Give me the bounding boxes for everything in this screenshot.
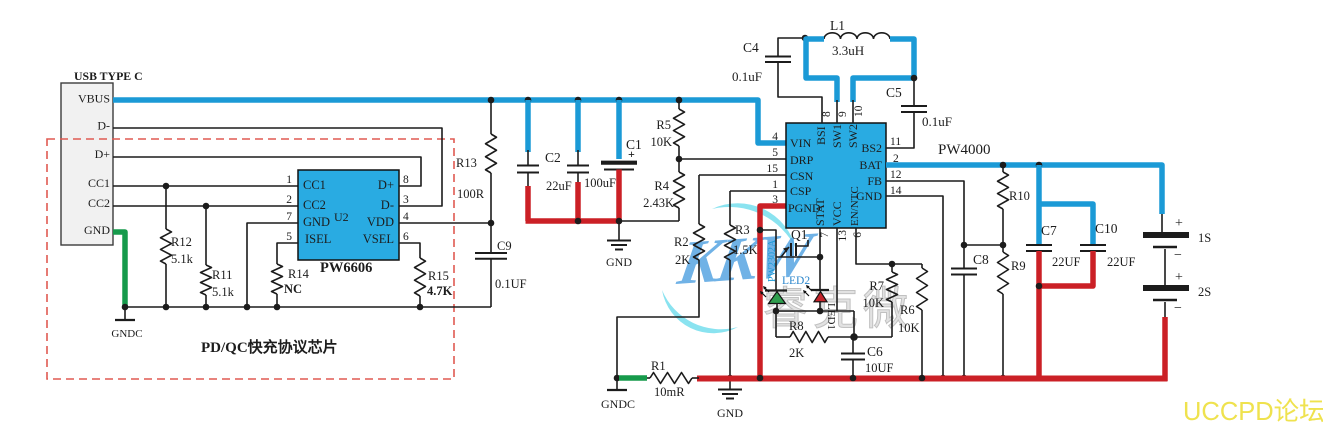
svg-text:CSN: CSN	[790, 169, 814, 183]
svg-text:−: −	[1174, 248, 1182, 263]
svg-text:R14: R14	[288, 267, 310, 281]
USB pin labels	[78, 92, 110, 238]
svg-text:2K: 2K	[675, 253, 690, 267]
svg-text:100uF: 100uF	[584, 176, 616, 190]
svg-text:C10: C10	[1095, 221, 1118, 236]
svg-text:VSEL: VSEL	[363, 232, 394, 246]
svg-text:R11: R11	[212, 268, 232, 282]
svg-text:C9: C9	[497, 239, 512, 253]
svg-text:2K: 2K	[789, 346, 804, 360]
svg-text:10K: 10K	[898, 321, 920, 335]
svg-text:R2: R2	[674, 235, 689, 249]
battery cell 2S	[1143, 249, 1211, 316]
svg-text:C6: C6	[867, 344, 883, 359]
svg-text:LED1: LED1	[825, 303, 837, 330]
svg-text:1: 1	[286, 174, 292, 186]
U1 pin numbers left	[767, 131, 779, 206]
svg-text:D+: D+	[95, 147, 111, 161]
svg-text:R12: R12	[171, 235, 192, 249]
wire bottom red rail	[697, 375, 1168, 382]
svg-text:GNDC: GNDC	[601, 397, 635, 411]
ground GNDC (sense)	[601, 378, 635, 411]
capacitor C6	[841, 337, 894, 378]
watermark swoosh arc top	[712, 203, 796, 249]
svg-text:UCCPD论坛: UCCPD论坛	[1183, 398, 1323, 425]
svg-text:10K: 10K	[650, 135, 672, 149]
svg-text:EN/NTC: EN/NTC	[849, 186, 861, 226]
resistor R8	[776, 311, 892, 360]
resistor R15 (VSEL)	[399, 243, 453, 310]
svg-text:PW6606: PW6606	[320, 260, 372, 276]
svg-text:R13: R13	[456, 156, 477, 170]
svg-text:5: 5	[772, 147, 778, 159]
resistor R1	[619, 359, 699, 399]
svg-text:−: −	[1174, 301, 1182, 316]
label PW4000	[938, 142, 991, 158]
op-chip U2 PW6606 body	[298, 170, 399, 260]
wire VCC pin13 down	[836, 228, 838, 311]
svg-text:5.1k: 5.1k	[171, 252, 194, 266]
svg-text:1S: 1S	[1198, 231, 1211, 245]
svg-text:R4: R4	[654, 179, 669, 193]
wire L1 right to SW2 (blue)	[853, 39, 917, 123]
svg-text:VCC: VCC	[830, 201, 844, 226]
wire LED bottoms rail	[773, 308, 854, 337]
svg-text:10K: 10K	[862, 296, 884, 310]
wire battery minus (thick red)	[1164, 302, 1166, 381]
svg-text:9: 9	[837, 111, 849, 117]
capacitor C4	[732, 35, 822, 123]
svg-text:USB TYPE C: USB TYPE C	[74, 69, 143, 83]
U2 pin numbers right	[403, 174, 409, 243]
svg-text:R8: R8	[789, 319, 804, 333]
svg-text:NC: NC	[284, 282, 302, 296]
wire VBUS (thick blue)	[113, 100, 786, 143]
wire PGND (thick red)	[760, 206, 786, 378]
svg-text:22uF: 22uF	[546, 179, 572, 193]
svg-text:SW1: SW1	[830, 124, 844, 148]
svg-text:+: +	[628, 147, 635, 161]
svg-text:10mR: 10mR	[654, 385, 685, 399]
svg-text:PW4000: PW4000	[938, 142, 991, 158]
svg-text:GNDC: GNDC	[111, 328, 142, 340]
ground GND (R3/rail)	[717, 375, 743, 420]
svg-text:0.1uF: 0.1uF	[922, 114, 952, 129]
svg-text:BAT: BAT	[859, 158, 882, 172]
svg-text:R1: R1	[651, 359, 666, 373]
capacitor C5	[886, 78, 952, 148]
watermark swoosh arc bottom	[662, 290, 738, 333]
svg-text:D-: D-	[381, 198, 394, 212]
svg-text:C7: C7	[1041, 223, 1057, 238]
svg-text:8: 8	[403, 174, 409, 186]
svg-text:13: 13	[837, 230, 849, 242]
svg-text:CC2: CC2	[303, 198, 326, 212]
led LED2 (green)	[760, 257, 810, 312]
ground GNDC (usb)	[111, 307, 142, 340]
svg-text:7: 7	[286, 211, 292, 223]
capacitor 100uF	[567, 97, 616, 221]
capacitor C10	[1036, 204, 1136, 289]
wire L1 left to SW1 (blue)	[806, 39, 837, 123]
charger chip U1 PW4000 body	[786, 123, 886, 228]
U1 pin numbers bottom	[819, 230, 864, 242]
svg-text:GND: GND	[717, 406, 743, 420]
svg-text:1: 1	[772, 179, 778, 191]
svg-text:100R: 100R	[457, 187, 485, 201]
svg-text:R7: R7	[869, 279, 884, 293]
svg-text:4: 4	[403, 211, 409, 223]
svg-text:D+: D+	[378, 178, 394, 192]
svg-text:GND: GND	[606, 255, 632, 269]
svg-text:BS2: BS2	[861, 141, 882, 155]
svg-text:22UF: 22UF	[1107, 255, 1136, 269]
inductor L1	[824, 18, 890, 58]
node GNDC2	[614, 375, 621, 382]
svg-text:FB: FB	[867, 174, 882, 188]
svg-text:CC1: CC1	[88, 176, 110, 190]
wire red cap ground bar	[526, 218, 623, 225]
svg-text:R15: R15	[428, 269, 449, 283]
svg-text:1.5K: 1.5K	[733, 243, 758, 257]
wire FB pin12	[886, 181, 1006, 248]
PD/QC dashed boundary box	[47, 139, 454, 379]
svg-text:Q1: Q1	[791, 227, 808, 242]
transistor Q1 PW2302A	[757, 227, 824, 261]
svg-text:2S: 2S	[1198, 285, 1211, 299]
wire GND pin14 to rail	[886, 196, 946, 381]
svg-text:CC2: CC2	[88, 196, 110, 210]
svg-text:C2: C2	[545, 150, 561, 165]
resistor R10	[998, 165, 1030, 245]
resistor R6	[898, 264, 928, 378]
svg-text:R6: R6	[900, 303, 915, 317]
label UCCPD forum watermark	[1183, 398, 1323, 425]
svg-text:3: 3	[772, 194, 778, 206]
svg-text:3.3uH: 3.3uH	[832, 43, 864, 58]
svg-text:R9: R9	[1011, 259, 1026, 273]
svg-text:C8: C8	[973, 252, 989, 267]
U1 pin numbers right	[890, 136, 902, 197]
svg-text:VBUS: VBUS	[78, 92, 110, 106]
resistor R7	[862, 264, 897, 337]
wire GND (thick green)	[113, 232, 125, 306]
wire red bar to R4	[621, 220, 679, 222]
resistor R5	[650, 97, 684, 163]
watermark chinese characters	[763, 284, 913, 334]
wire R5/R4 node to DRP pin5	[679, 158, 786, 160]
svg-text:R3: R3	[735, 223, 750, 237]
svg-text:+: +	[1175, 270, 1183, 285]
svg-text:4: 4	[772, 131, 778, 143]
battery cell 1S	[1143, 214, 1211, 263]
wire EN/NTC pin6 down	[856, 228, 922, 267]
svg-text:GND: GND	[303, 215, 330, 229]
resistor R2	[617, 175, 705, 378]
svg-text:2: 2	[286, 194, 292, 206]
svg-text:CSP: CSP	[790, 184, 812, 198]
wire CC2 to U2 pin2	[113, 203, 298, 210]
svg-text:12: 12	[890, 169, 902, 181]
svg-text:0.1uF: 0.1uF	[732, 69, 762, 84]
capacitor C2	[517, 97, 572, 221]
svg-text:GND: GND	[84, 223, 110, 237]
label PW6606	[320, 260, 372, 276]
capacitor C8	[951, 245, 989, 381]
svg-text:22UF: 22UF	[1052, 255, 1081, 269]
svg-text:SW2: SW2	[846, 124, 860, 148]
wire CSN pin15 to R2	[699, 174, 786, 176]
wire BAT to battery (thick blue)	[886, 162, 1162, 214]
resistor R9	[998, 245, 1026, 381]
U1 pin numbers top	[821, 105, 865, 117]
resistor R3	[725, 191, 758, 378]
resistor R12	[161, 186, 194, 310]
svg-text:U2: U2	[334, 210, 349, 224]
ground GND (caps)	[606, 223, 632, 269]
USB TYPE C connector body	[61, 69, 143, 245]
svg-text:5.1k: 5.1k	[212, 285, 235, 299]
svg-text:3: 3	[403, 194, 409, 206]
svg-text:15: 15	[767, 163, 779, 175]
svg-text:DRP: DRP	[790, 153, 814, 167]
wire D+ to U2 pin8	[113, 157, 421, 186]
svg-text:10UF: 10UF	[865, 361, 894, 375]
svg-text:R5: R5	[656, 118, 671, 132]
svg-text:2.43K: 2.43K	[643, 196, 674, 210]
svg-text:+: +	[1175, 216, 1183, 231]
svg-text:BSI: BSI	[814, 126, 828, 145]
resistor R13	[456, 97, 497, 223]
svg-text:5: 5	[286, 231, 292, 243]
svg-text:STAT: STAT	[813, 198, 827, 226]
wire D- to U2 pin3	[113, 128, 442, 206]
wire U2 pin4 VDD	[399, 220, 494, 227]
wire CSP pin1 to R3	[730, 190, 786, 192]
svg-text:4.7K: 4.7K	[427, 284, 453, 298]
capacitor C7	[1026, 165, 1081, 381]
svg-text:6: 6	[852, 232, 864, 238]
resistor R14 (ISEL)	[272, 243, 310, 310]
svg-text:0.1UF: 0.1UF	[495, 277, 527, 291]
node GNDC rail junction	[122, 304, 129, 311]
svg-text:C5: C5	[886, 85, 902, 100]
wire STAT pin7 down	[819, 228, 821, 257]
svg-text:ISEL: ISEL	[305, 232, 331, 246]
svg-text:VIN: VIN	[790, 136, 812, 150]
U2 pin numbers left	[286, 174, 292, 243]
resistor R4	[643, 159, 684, 221]
capacitor C1 (electrolytic)	[601, 97, 642, 221]
label PW2302A (vertical blue)	[767, 239, 778, 282]
watermark KKW letters	[673, 219, 822, 299]
svg-text:10: 10	[853, 105, 865, 117]
svg-text:L1: L1	[830, 18, 845, 33]
label PD/QC chip region	[201, 338, 338, 356]
svg-text:R10: R10	[1009, 189, 1030, 203]
svg-text:PD/QC快充协议芯片: PD/QC快充协议芯片	[201, 338, 338, 356]
resistor R11	[201, 206, 235, 310]
svg-text:VDD: VDD	[367, 215, 394, 229]
led LED1 (red)	[803, 257, 837, 330]
svg-text:6: 6	[403, 231, 409, 243]
svg-text:C4: C4	[743, 40, 759, 55]
svg-text:D-: D-	[97, 119, 110, 133]
wire PD section ground rail	[125, 306, 491, 308]
wire CC1 to U2 pin1	[113, 183, 298, 190]
svg-text:11: 11	[890, 136, 901, 148]
svg-text:CC1: CC1	[303, 178, 326, 192]
wire U2 pin7 GND down	[244, 223, 298, 310]
capacitor C9	[475, 223, 527, 307]
